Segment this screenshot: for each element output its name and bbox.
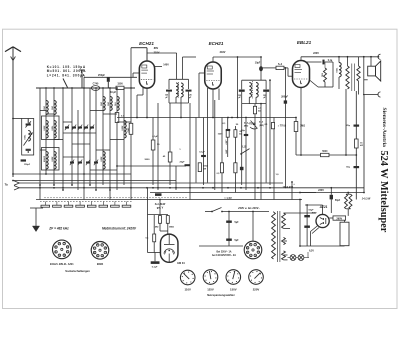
svg-text:2500: 2500 bbox=[121, 126, 123, 132]
choke joins bbox=[346, 192, 351, 216]
svg-text:1500: 1500 bbox=[117, 83, 123, 86]
cap 0,1 left bbox=[199, 152, 206, 157]
coil L6 bbox=[51, 152, 57, 170]
cap 0.1uF out bbox=[306, 60, 333, 87]
svg-text:L=241. 841. 300µA: L=241. 841. 300µA bbox=[47, 73, 86, 77]
em34 cap bbox=[151, 261, 160, 268]
svg-text:AZ21: AZ21 bbox=[319, 205, 328, 209]
dial label 110V bbox=[185, 288, 192, 292]
Ta label bbox=[4, 183, 8, 187]
svg-text:50kΩ: 50kΩ bbox=[203, 165, 208, 167]
vertical v176 bbox=[175, 166, 177, 190]
transformer sec a bbox=[282, 213, 286, 228]
label Netzspannung bbox=[207, 293, 235, 297]
IFT2 sec resistor bbox=[253, 104, 261, 114]
svg-text:1: 1 bbox=[105, 252, 106, 254]
label 0.1s bbox=[242, 145, 247, 148]
antenna mast bbox=[5, 47, 21, 177]
svg-text:ZF = 482 kHz: ZF = 482 kHz bbox=[48, 227, 69, 231]
label 88V bbox=[154, 47, 159, 50]
socket ECH21 bbox=[53, 240, 72, 259]
switch wire down bbox=[30, 208, 43, 226]
dial 150V bbox=[226, 270, 241, 285]
svg-text:1MΩ: 1MΩ bbox=[126, 128, 128, 133]
resistor Rs1 bbox=[218, 130, 230, 138]
svg-text:1500: 1500 bbox=[218, 133, 224, 135]
wire grid row bbox=[84, 76, 137, 78]
dial label 150V bbox=[230, 288, 237, 292]
svg-text:kΩ: kΩ bbox=[239, 133, 242, 135]
resistor 5000 bbox=[321, 151, 330, 157]
wire 10uF drop bbox=[260, 56, 262, 80]
dial 110V bbox=[180, 270, 195, 285]
lamp leads bbox=[288, 250, 315, 257]
stage2 verticals bbox=[204, 80, 275, 199]
wire mid h166 bbox=[116, 165, 186, 167]
cap mid black bbox=[155, 193, 162, 196]
svg-text:0,1µF: 0,1µF bbox=[199, 152, 205, 154]
coil L9 bbox=[114, 97, 120, 111]
label 4750 bbox=[248, 123, 255, 126]
cap 200uF bbox=[280, 67, 288, 188]
resistor R6 bbox=[163, 152, 172, 162]
label 49uF bbox=[110, 91, 117, 94]
svg-text:K=101. 105. 150µA: K=101. 105. 150µA bbox=[47, 65, 86, 69]
svg-text:25µF: 25µF bbox=[179, 162, 185, 164]
svg-text:0,1µF: 0,1µF bbox=[152, 136, 158, 138]
cap 25uF right bbox=[346, 125, 359, 127]
em34 wire bottom bbox=[148, 253, 161, 269]
ground bbox=[32, 226, 39, 232]
padding cap 250pF bbox=[98, 74, 110, 88]
resistor RV bbox=[340, 220, 349, 246]
svg-text:6: 6 bbox=[97, 244, 98, 246]
svg-text:2500: 2500 bbox=[51, 157, 53, 163]
AVC dots bbox=[136, 117, 214, 119]
coil L1 bbox=[43, 101, 49, 115]
resistor R-osc bbox=[126, 123, 133, 134]
socket label 1 bbox=[50, 263, 74, 266]
bus y199 bbox=[36, 199, 302, 201]
cap 5uF b bbox=[226, 239, 239, 242]
trimmer row bottom bbox=[70, 160, 98, 166]
wire U2 left bbox=[199, 73, 205, 118]
coil 7000 bbox=[335, 56, 341, 89]
selector top bbox=[252, 211, 254, 242]
svg-text:7: 7 bbox=[64, 243, 65, 245]
cap 5uF a bbox=[226, 221, 239, 224]
vertical v153 bbox=[152, 118, 154, 186]
IFT2 bottoms bbox=[242, 92, 266, 104]
resistor Rs2 bbox=[234, 130, 243, 138]
cap black 241 bbox=[240, 167, 244, 170]
em34 internals bbox=[164, 234, 175, 262]
cap 50uF right bbox=[346, 166, 359, 168]
svg-text:5µF: 5µF bbox=[235, 222, 240, 224]
wire U2 bottom bbox=[208, 88, 220, 118]
dial 220V bbox=[249, 270, 264, 285]
resistor 1500 bbox=[116, 83, 124, 90]
label 50kohm bbox=[236, 124, 239, 126]
vertical v158 bbox=[157, 103, 159, 190]
svg-text:(MΩ): (MΩ) bbox=[259, 125, 264, 127]
svg-text:218V: 218V bbox=[220, 51, 226, 54]
svg-text:2W: 2W bbox=[203, 168, 206, 170]
label t1 bbox=[241, 130, 245, 132]
coil L10 bbox=[121, 121, 127, 139]
wire cap-res bbox=[261, 67, 276, 69]
svg-text:EM34: EM34 bbox=[97, 263, 104, 266]
band switch dots bbox=[45, 197, 187, 198]
svg-text:7000: 7000 bbox=[335, 68, 337, 74]
terminal top bbox=[378, 54, 381, 59]
svg-text:125V: 125V bbox=[207, 288, 214, 292]
selector plug bbox=[244, 241, 262, 259]
label zu LMW bbox=[155, 203, 166, 209]
IFT2 coil b bbox=[256, 83, 258, 98]
wire U1 left bbox=[133, 73, 139, 77]
label ECH21 first bbox=[139, 41, 154, 46]
coil L3 bbox=[43, 121, 49, 139]
wire U3 top bbox=[301, 57, 379, 61]
cap 50uF c bbox=[330, 195, 341, 202]
coil L11 bbox=[100, 152, 106, 170]
IFT2 cap left bbox=[238, 90, 245, 100]
svg-text:3: 3 bbox=[97, 256, 98, 258]
transformer core bbox=[278, 211, 280, 262]
tuner stubs bbox=[40, 111, 131, 171]
svg-text:220V: 220V bbox=[253, 288, 260, 292]
svg-text:2500: 2500 bbox=[100, 157, 102, 163]
IFT2 top loop bbox=[242, 80, 266, 89]
svg-text:6: 6 bbox=[250, 244, 251, 246]
label 0,1uF a bbox=[222, 123, 226, 125]
IFT1 coil b bbox=[181, 83, 183, 97]
svg-text:1: 1 bbox=[258, 252, 259, 254]
wire U1 anode top bbox=[131, 48, 147, 61]
IFT2 coil a bbox=[249, 83, 251, 98]
tube AZ21 bbox=[316, 214, 329, 227]
label ECH21 second bbox=[209, 41, 224, 46]
svg-text:EM 34: EM 34 bbox=[177, 262, 185, 265]
dial label 125V bbox=[207, 288, 214, 292]
svg-text:Bei 220V~ 1A: Bei 220V~ 1A bbox=[216, 251, 231, 254]
B+ vertical x364 bbox=[363, 95, 365, 194]
cap 50uF b bbox=[304, 226, 310, 228]
svg-text:5000: 5000 bbox=[322, 151, 328, 153]
dial label 220V bbox=[253, 288, 260, 292]
title 524 W Mittelsuper bbox=[378, 151, 389, 233]
mains wire y246 bbox=[199, 245, 243, 247]
wire U1 bottom bbox=[137, 87, 147, 118]
svg-text:220V: 220V bbox=[313, 52, 319, 55]
label EM 34 bbox=[177, 262, 185, 265]
ant electrolytic bbox=[21, 159, 31, 166]
svg-text:8: 8 bbox=[67, 246, 68, 248]
rect caps labels bbox=[308, 210, 317, 215]
resistor Rs5 bbox=[198, 163, 208, 172]
terminal bottom bbox=[363, 92, 381, 97]
choke zig a bbox=[345, 194, 348, 209]
em34 top wires bbox=[148, 199, 169, 215]
svg-text:2: 2 bbox=[255, 255, 256, 257]
label ZF bbox=[48, 227, 69, 231]
mains switch bbox=[205, 208, 269, 213]
IFT1 top loop bbox=[169, 79, 189, 89]
label t5 bbox=[264, 124, 268, 126]
wire fb bottom bbox=[310, 80, 334, 87]
AVC bus bbox=[117, 117, 296, 119]
resistor 5k bbox=[276, 63, 284, 70]
svg-text:5: 5 bbox=[94, 248, 95, 250]
transformer sec c bbox=[282, 251, 286, 260]
ant coil bbox=[23, 131, 30, 142]
svg-text:bei 110/125/150V~ 2A: bei 110/125/150V~ 2A bbox=[212, 254, 236, 257]
trimmer row top bbox=[65, 125, 94, 131]
label AZ21 bbox=[319, 205, 328, 209]
label 10uF450 bbox=[282, 184, 295, 189]
transformer primary bbox=[272, 212, 276, 260]
svg-text:kΩ: kΩ bbox=[360, 145, 363, 147]
label 230V bbox=[318, 189, 324, 192]
svg-text:0,15: 0,15 bbox=[242, 145, 247, 148]
svg-text:6: 6 bbox=[59, 243, 60, 245]
az21 leads bbox=[311, 226, 320, 247]
svg-text:50µF: 50µF bbox=[308, 210, 314, 212]
svg-text:5+2: 5+2 bbox=[278, 63, 283, 66]
speaker feed bbox=[363, 56, 372, 95]
svg-text:250pF: 250pF bbox=[98, 74, 105, 77]
bus y174 bbox=[12, 173, 131, 175]
label Messinstrument bbox=[102, 227, 137, 231]
bus dots bbox=[39, 187, 271, 189]
IFT1 bottoms bbox=[169, 92, 189, 118]
svg-text:4750Ω: 4750Ω bbox=[248, 123, 255, 126]
svg-text:230V: 230V bbox=[318, 189, 324, 192]
wire grid-cap riser bbox=[80, 70, 85, 88]
resistor R5 bbox=[151, 140, 160, 150]
tube EM34 bbox=[160, 234, 178, 262]
wire U1 screen bbox=[155, 63, 170, 66]
band switch dashed bbox=[40, 201, 133, 203]
svg-text:10000: 10000 bbox=[43, 156, 45, 163]
rect cap wire bbox=[306, 204, 308, 246]
svg-text:290V: 290V bbox=[336, 217, 342, 220]
label 1,5V bbox=[224, 196, 232, 200]
ant trimmer cap bbox=[25, 119, 31, 128]
svg-text:50µF: 50µF bbox=[335, 200, 341, 202]
label t8 bbox=[145, 159, 151, 161]
resistor Rem1 bbox=[154, 216, 162, 229]
label J bbox=[362, 198, 371, 200]
label t9 bbox=[179, 149, 181, 151]
label 218V U2 bbox=[220, 51, 226, 54]
svg-text:7: 7 bbox=[255, 244, 256, 246]
svg-text:2: 2 bbox=[102, 256, 103, 258]
svg-text:8: 8 bbox=[258, 247, 259, 249]
speaker bbox=[368, 61, 381, 81]
wire sec bottom bbox=[358, 81, 360, 95]
em34 vertical left bbox=[147, 188, 149, 253]
band switch contacts bbox=[41, 202, 131, 208]
stage2 dots bbox=[227, 79, 297, 118]
svg-text:150µF: 150µF bbox=[24, 164, 31, 166]
output transformer primary bbox=[346, 56, 349, 89]
socket EM34 bbox=[91, 242, 109, 260]
Ta terminal 1 bbox=[14, 181, 19, 185]
tube3 bottom vertical bbox=[300, 88, 302, 156]
IFT2 core bbox=[252, 81, 254, 99]
pilot lamp 2 bbox=[298, 255, 304, 261]
cap 50uF a bbox=[304, 215, 310, 217]
svg-text:200µF: 200µF bbox=[280, 95, 288, 98]
svg-text:Siemens-Austria: Siemens-Austria bbox=[381, 108, 387, 148]
IFT1 core bbox=[178, 82, 180, 98]
svg-text:5MΩ: 5MΩ bbox=[169, 227, 174, 229]
mains vertical bbox=[228, 211, 230, 246]
resistor 50k zig bbox=[321, 62, 327, 82]
em34 mid wires bbox=[160, 223, 168, 234]
wire y155 bbox=[296, 154, 357, 156]
svg-text:7500: 7500 bbox=[51, 126, 53, 132]
bus y192 bbox=[150, 192, 364, 194]
output transformer secondary bbox=[357, 57, 360, 81]
choke zig b bbox=[349, 194, 352, 209]
note pointer bbox=[63, 79, 68, 88]
resistor R770 bbox=[271, 123, 286, 129]
wire U2 top bbox=[213, 57, 261, 62]
osc coil C740 bbox=[91, 83, 99, 91]
IFT1 cap right bbox=[186, 90, 193, 99]
svg-text:2: 2 bbox=[64, 255, 65, 257]
output transformer core bbox=[352, 64, 355, 92]
svg-text:140V: 140V bbox=[163, 63, 169, 66]
cap 10uF bbox=[255, 62, 263, 72]
svg-text:5000: 5000 bbox=[145, 159, 151, 161]
coil L5 bbox=[43, 152, 49, 170]
cap 25uF mid bbox=[179, 162, 190, 167]
svg-text:ECH21. EBL21. AZ21: ECH21. EBL21. AZ21 bbox=[50, 263, 74, 266]
wire U1 plate bbox=[147, 53, 196, 79]
label t4 bbox=[275, 174, 279, 176]
svg-text:0,1µ: 0,1µ bbox=[328, 60, 333, 62]
IFT1 cap left bbox=[165, 90, 172, 99]
trafo leads bbox=[284, 213, 317, 260]
bus y180 bbox=[12, 180, 176, 182]
svg-text:110V: 110V bbox=[185, 288, 192, 292]
vertical x292 bbox=[291, 181, 293, 199]
svg-text:-18V: -18V bbox=[224, 149, 226, 154]
svg-text:Ta: Ta bbox=[4, 183, 8, 187]
svg-text:6,3V: 6,3V bbox=[309, 250, 314, 252]
label bei220 bbox=[212, 251, 236, 258]
Ta terminal 2 bbox=[14, 186, 19, 190]
label Sockelschaltungen bbox=[65, 269, 90, 273]
box 290V bbox=[329, 216, 345, 221]
svg-text:524 W Mittelsuper: 524 W Mittelsuper bbox=[378, 151, 389, 233]
svg-text:5: 5 bbox=[247, 247, 248, 249]
svg-text:5µF: 5µF bbox=[235, 240, 240, 242]
resistor Rs4 bbox=[234, 163, 237, 173]
wire c50 bbox=[330, 187, 332, 213]
svg-text:10µF: 10µF bbox=[255, 62, 261, 65]
dial 125V bbox=[203, 270, 218, 285]
tuner bus verticals bbox=[40, 48, 131, 200]
svg-text:EBL21: EBL21 bbox=[297, 40, 312, 45]
vertical v170 bbox=[169, 103, 171, 185]
label 220V bbox=[313, 52, 319, 55]
coil L4 bbox=[51, 121, 57, 139]
bus y185 bbox=[19, 182, 283, 184]
vertical x346 bbox=[345, 89, 347, 155]
svg-text:ECH21: ECH21 bbox=[139, 41, 154, 46]
wire osc top bbox=[36, 87, 135, 89]
socket label 2 bbox=[97, 263, 104, 266]
tube U3 EBL21 bbox=[293, 61, 310, 88]
svg-text:C740: C740 bbox=[93, 83, 99, 86]
tuner junction dots bbox=[39, 87, 132, 191]
svg-text:5: 5 bbox=[55, 247, 56, 249]
vertical x356 bbox=[355, 91, 357, 200]
pilot lamp 1 bbox=[290, 255, 296, 261]
ant cap2 bbox=[26, 149, 31, 153]
wire res-U3 bbox=[284, 68, 293, 76]
svg-text:J=5,3 W: J=5,3 W bbox=[362, 198, 371, 200]
svg-text:ECH21: ECH21 bbox=[209, 41, 224, 46]
wire U2 plate drop bbox=[237, 56, 239, 117]
transformer sec b bbox=[282, 237, 286, 244]
rect wire a bbox=[299, 192, 323, 246]
coil L7 bbox=[100, 97, 106, 111]
cap c-mid2 bbox=[244, 135, 248, 136]
svg-text:1: 1 bbox=[67, 251, 68, 253]
resistor Rem2 bbox=[166, 216, 174, 229]
resistor right bbox=[355, 139, 364, 148]
resistor R-grid bbox=[115, 113, 125, 123]
label 218V U1 bbox=[154, 51, 160, 54]
coil L2 bbox=[51, 101, 57, 115]
az21 internals bbox=[320, 218, 326, 225]
svg-text:0,1µF: 0,1µF bbox=[152, 267, 158, 269]
svg-text:3: 3 bbox=[59, 255, 60, 257]
switch s2 bbox=[240, 149, 249, 155]
bandfilter box bbox=[42, 116, 60, 140]
resistor Rs3 bbox=[217, 163, 224, 175]
vertical v190 bbox=[190, 103, 196, 200]
label -18V bbox=[224, 139, 227, 154]
title Siemens-Austria bbox=[381, 108, 387, 148]
svg-text:88V: 88V bbox=[154, 47, 159, 50]
svg-text:Meßinstrument: 242/IV: Meßinstrument: 242/IV bbox=[102, 227, 137, 231]
tube U2 ECH21 bbox=[205, 62, 222, 89]
svg-text:8: 8 bbox=[105, 247, 106, 249]
svg-text:150V: 150V bbox=[230, 288, 237, 292]
wire bottom right bbox=[299, 245, 344, 249]
label t7 bbox=[152, 136, 158, 138]
antenna transformer box bbox=[12, 118, 34, 155]
note currents bbox=[47, 65, 87, 78]
cap c-mid1 bbox=[226, 130, 230, 131]
IFT1 coil a bbox=[176, 83, 178, 97]
resistor 1Mohm bbox=[294, 118, 305, 156]
grid cluster bbox=[244, 121, 264, 130]
bandfilter box 2 bbox=[42, 148, 60, 171]
label EBL21 bbox=[297, 40, 312, 45]
ant variable arrow bbox=[24, 133, 33, 146]
coil L8 bbox=[107, 97, 113, 111]
svg-text:3: 3 bbox=[250, 255, 251, 257]
resistor Rem3 bbox=[145, 215, 155, 253]
